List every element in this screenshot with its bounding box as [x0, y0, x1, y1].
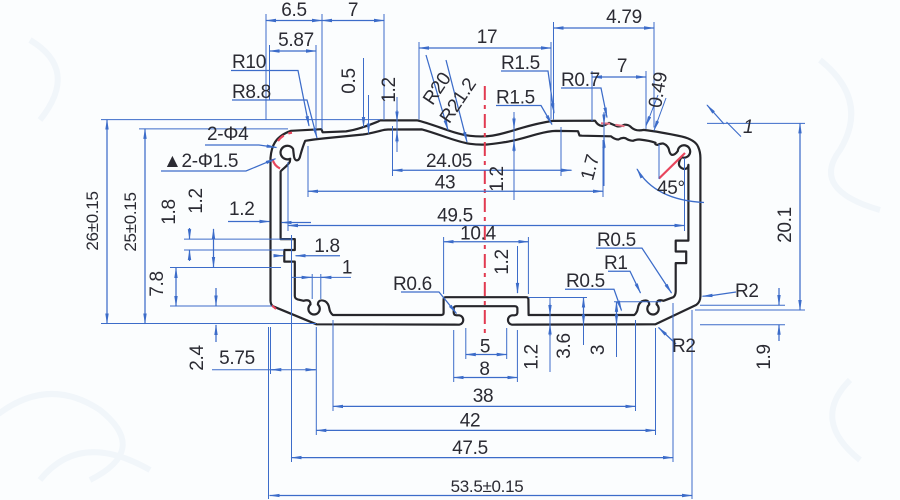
red 45-degree line top right — [659, 153, 685, 179]
dim 1.2 floor — [549, 298, 551, 373]
svg-text:R0.7: R0.7 — [561, 70, 600, 91]
svg-text:R0.5: R0.5 — [597, 230, 636, 251]
svg-text:R10: R10 — [232, 52, 266, 73]
svg-text:3.6: 3.6 — [554, 333, 575, 359]
svg-text:R0.6: R0.6 — [393, 274, 432, 295]
svg-text:1.8: 1.8 — [314, 236, 340, 257]
dim 24.05 — [393, 169, 572, 171]
extrusion outer outline — [271, 120, 701, 324]
leader 2-d4 — [205, 145, 277, 148]
svg-text:1.2: 1.2 — [487, 166, 508, 192]
svg-text:0.5: 0.5 — [339, 68, 360, 94]
dim 2.4 — [215, 288, 217, 306]
svg-text:43: 43 — [435, 173, 456, 194]
dim 1.8 left — [189, 228, 191, 239]
leader R0.6 — [401, 292, 457, 314]
svg-text:R0.5: R0.5 — [566, 271, 605, 292]
dim 1.2 top wall — [396, 97, 398, 152]
dim 47.5 — [292, 457, 674, 459]
svg-text:20.1: 20.1 — [775, 207, 796, 243]
red arc top-left corner R10 — [278, 133, 292, 141]
svg-text:47.5: 47.5 — [452, 438, 488, 459]
leader 1 wall top right — [707, 105, 724, 124]
red wave highlights top right — [601, 122, 610, 125]
svg-text:3: 3 — [588, 345, 609, 355]
dim 26 — [106, 120, 108, 324]
svg-text:1: 1 — [342, 258, 352, 279]
leader R8.8 — [232, 100, 317, 138]
svg-text:2-Φ4: 2-Φ4 — [207, 124, 249, 145]
dim 1.2 crest wall — [513, 112, 515, 200]
dim 1.8 bottom-left horizontal — [275, 255, 284, 257]
dim 17 line — [419, 47, 551, 49]
dim 7.8 — [175, 268, 177, 306]
dim 8 bottom — [454, 377, 518, 379]
leader R1.5 upper — [501, 71, 554, 113]
svg-text:1.2: 1.2 — [379, 77, 400, 103]
svg-text:R1: R1 — [604, 253, 628, 274]
dim 42 — [316, 429, 655, 431]
dim 0.49 slants — [646, 95, 658, 126]
svg-text:1.2: 1.2 — [186, 188, 207, 214]
extension lines top — [265, 14, 267, 120]
dim 1.2 left vertical — [213, 229, 215, 267]
dim 7 right line — [592, 76, 646, 78]
red tick bottom-left chamfer — [272, 306, 276, 310]
leader R0.7 — [561, 88, 607, 118]
dim 7 line — [322, 20, 384, 22]
svg-text:6.5: 6.5 — [281, 0, 307, 21]
svg-text:1: 1 — [743, 117, 753, 138]
dim 1.2 wall horizontal — [228, 221, 270, 223]
svg-text:▲2-Φ1.5: ▲2-Φ1.5 — [163, 151, 238, 172]
leader R2 right — [703, 292, 737, 296]
dim 1.9 — [778, 288, 780, 305]
dim 1 groove — [291, 276, 351, 278]
dim 6.5 line — [266, 20, 322, 22]
leader R1.5 lower — [496, 106, 552, 125]
svg-text:R2: R2 — [735, 281, 759, 302]
45 degree vertical leg — [658, 144, 660, 179]
dim 10.4 — [444, 241, 529, 243]
datum ext pad-top right — [614, 301, 661, 303]
svg-text:17: 17 — [477, 27, 498, 48]
leader R1 — [608, 271, 641, 293]
svg-text:2.4: 2.4 — [187, 345, 208, 371]
dim 53.5 — [270, 495, 692, 497]
dim 49.5 — [288, 225, 685, 227]
svg-text:4.79: 4.79 — [606, 7, 642, 28]
leader R0.5 right upper — [596, 248, 672, 293]
leader R10 — [231, 71, 309, 127]
svg-text:7: 7 — [617, 56, 627, 77]
red centerline — [484, 86, 486, 338]
svg-text:1.2: 1.2 — [229, 199, 255, 220]
svg-text:R1.5: R1.5 — [496, 88, 535, 109]
dim 20.1 — [799, 123, 801, 310]
svg-text:R8.8: R8.8 — [232, 82, 271, 103]
svg-text:R1.5: R1.5 — [501, 53, 540, 74]
svg-text:1.2: 1.2 — [522, 344, 543, 370]
dim 3.6 — [583, 298, 585, 325]
dim 5 bottom — [466, 354, 507, 356]
svg-text:7.8: 7.8 — [147, 271, 168, 297]
dim 3 — [616, 302, 618, 324]
datum ext plateau-top right — [529, 297, 588, 299]
45 degree arc — [637, 169, 704, 203]
dim 4.79 line — [554, 27, 655, 29]
dim 0.5 small verticals — [363, 58, 365, 127]
extrusion inner outline — [281, 129, 691, 315]
svg-text:1.2: 1.2 — [492, 249, 513, 275]
svg-text:26±0.15: 26±0.15 — [83, 191, 102, 250]
dim 5.75 — [212, 369, 316, 371]
svg-text:R2: R2 — [672, 336, 696, 357]
leader R21.2 slant — [446, 60, 467, 142]
svg-text:5: 5 — [480, 337, 490, 358]
dim 5.87 line — [270, 50, 317, 52]
dim 25 — [144, 129, 146, 324]
dim 1.7 wall — [603, 112, 605, 186]
dim 1.2 plateau wall — [517, 246, 519, 291]
svg-text:25±0.15: 25±0.15 — [121, 192, 140, 251]
leader R2 lower — [659, 328, 677, 345]
svg-text:5.87: 5.87 — [278, 30, 314, 51]
svg-text:24.05: 24.05 — [426, 151, 472, 172]
dim 43 — [308, 190, 603, 192]
red arc left below boss — [273, 159, 281, 169]
svg-text:53.5±0.15: 53.5±0.15 — [451, 477, 524, 496]
svg-text:1.9: 1.9 — [754, 344, 775, 370]
svg-text:38: 38 — [473, 386, 494, 407]
leader R20 slant — [426, 55, 448, 130]
svg-text:1.8: 1.8 — [159, 199, 180, 225]
svg-text:7: 7 — [348, 0, 358, 21]
svg-text:8: 8 — [479, 359, 489, 380]
svg-text:45°: 45° — [657, 178, 685, 199]
svg-text:10.4: 10.4 — [460, 224, 497, 245]
dim 38 — [333, 405, 636, 407]
leader R0.5 mid — [565, 289, 622, 310]
svg-text:5.75: 5.75 — [219, 348, 255, 369]
svg-text:42: 42 — [460, 411, 481, 432]
leader 2-d1.5 — [161, 159, 276, 171]
